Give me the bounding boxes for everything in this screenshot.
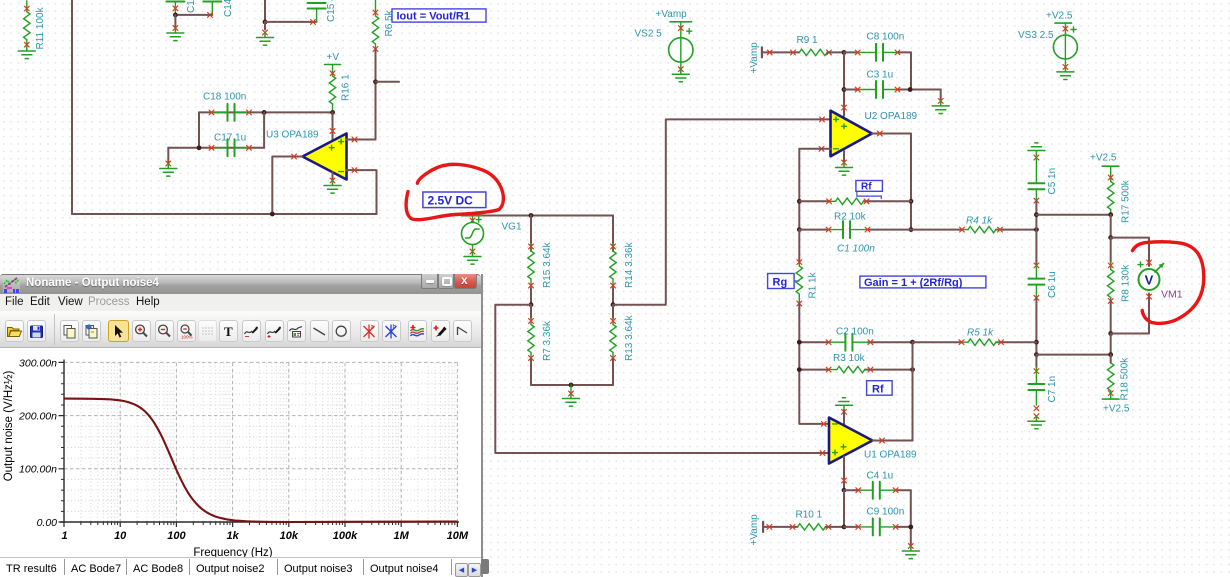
- power +V2.5 rail R17: [1090, 153, 1119, 167]
- junction right branch mid: [611, 302, 616, 307]
- resistor R8: [1108, 238, 1132, 334]
- junction C2 left/right: [797, 340, 802, 345]
- junction left branch mid: [529, 302, 534, 307]
- capacitor C1: [799, 221, 911, 254]
- svg-text:R5 1k: R5 1k: [967, 328, 994, 339]
- svg-text:C17 1u: C17 1u: [214, 133, 246, 144]
- resistor R2: [799, 198, 911, 222]
- wire U2 output: [872, 131, 911, 230]
- ground below C11: [167, 15, 184, 41]
- wire R8 to R18: [1110, 334, 1112, 355]
- resistor R11: [18, 1, 46, 59]
- wire C17 right up: [263, 112, 265, 147]
- svg-text:1M: 1M: [394, 530, 410, 542]
- ground flipped above U1: [836, 398, 853, 425]
- junction R5 right: [1034, 340, 1039, 345]
- junction output-rail: [270, 212, 275, 217]
- svg-text:C6 1u: C6 1u: [1047, 271, 1058, 298]
- capacitor C3: [844, 70, 941, 99]
- text box Rf upper: [856, 181, 883, 199]
- svg-text:10M: 10M: [447, 530, 469, 542]
- resistor R7: [528, 305, 553, 385]
- svg-text:100: 100: [167, 530, 186, 542]
- ground flipped above C5: [1028, 143, 1045, 156]
- junction C9 right: [908, 525, 913, 530]
- op-amp U1 OPA189: [820, 418, 917, 464]
- svg-text:R7 3.36k: R7 3.36k: [542, 320, 553, 361]
- ground C3: [932, 90, 949, 114]
- wire right tap to U2 +in: [613, 119, 831, 304]
- junction C11 node: [173, 13, 178, 18]
- capacitor C15: [308, 0, 337, 24]
- svg-text:VS2 5: VS2 5: [635, 29, 663, 40]
- svg-text:VG1: VG1: [502, 222, 522, 233]
- wire C5 node column: [1035, 201, 1037, 266]
- x ticks major: [64, 522, 457, 527]
- junction R18 top: [1108, 352, 1113, 357]
- junction C3 left: [842, 87, 847, 92]
- y ticks: [59, 362, 65, 522]
- svg-text:R8 130k: R8 130k: [1121, 264, 1132, 302]
- wire stub right: [376, 81, 400, 83]
- svg-text:+V2.5: +V2.5: [1103, 404, 1130, 415]
- capacitor C5: [1028, 155, 1058, 203]
- svg-text:VS3 2.5: VS3 2.5: [1018, 30, 1054, 41]
- svg-text:2.5V DC: 2.5V DC: [428, 194, 474, 208]
- red scribble around 2.5V DC: [406, 164, 503, 219]
- svg-text:R17 500k: R17 500k: [1121, 179, 1132, 223]
- junction stub node: [373, 79, 378, 84]
- svg-text:R9 1: R9 1: [797, 35, 819, 46]
- svg-text:200.00n: 200.00n: [18, 411, 57, 423]
- resistor R3: [799, 353, 912, 373]
- x axis labels: [61, 530, 468, 542]
- red scribble around VM1: [1133, 242, 1204, 324]
- wire bottom rail U3: [72, 213, 377, 215]
- resistor R17: [1108, 166, 1132, 223]
- resistor R16: [329, 65, 351, 113]
- op-amp U2 OPA189: [819, 105, 917, 156]
- ground C4/C9: [902, 544, 919, 559]
- junction bottom rail: [569, 383, 574, 388]
- wire left tap to U1 +in: [495, 305, 829, 453]
- junction R4 right: [1034, 227, 1039, 232]
- resistor R5: [913, 328, 1037, 346]
- resistor R1 (Rg): [796, 230, 829, 424]
- capacitor C14: [203, 0, 234, 17]
- svg-text:U1 OPA189: U1 OPA189: [864, 450, 917, 461]
- svg-text:Frequency (Hz): Frequency (Hz): [193, 547, 272, 557]
- wire U1 output: [873, 438, 913, 443]
- wire link C5 to R17: [1036, 214, 1110, 216]
- junction C1 row ends: [797, 227, 802, 232]
- junction C17 left: [197, 145, 202, 150]
- junction R10-C9: [842, 525, 847, 530]
- capacitor C9: [844, 507, 911, 536]
- noise curve: [64, 399, 457, 522]
- text box Gain formula: [860, 276, 986, 289]
- resistor R15: [528, 216, 553, 305]
- text box Rf lower: [867, 381, 893, 396]
- ground U2 -supply: [836, 151, 853, 175]
- ground divider: [563, 385, 580, 406]
- junction VM bottom: [1108, 331, 1113, 336]
- wire C18 left down: [198, 112, 200, 147]
- resistor R13: [610, 305, 635, 385]
- svg-text:0.00: 0.00: [37, 517, 58, 529]
- svg-text:R13 3.64k: R13 3.64k: [624, 314, 635, 361]
- resistor R10: [796, 510, 845, 531]
- resistor R6: [372, 0, 395, 51]
- svg-text:+Vamp: +Vamp: [749, 514, 760, 546]
- wire node down to C3/U2: [843, 52, 845, 116]
- svg-text:10: 10: [114, 530, 127, 542]
- svg-text:Rf: Rf: [861, 181, 872, 192]
- toolbar buttons: [54, 314, 55, 345]
- svg-text:C9 100n: C9 100n: [867, 507, 905, 518]
- ground C17 branch: [160, 148, 177, 176]
- wire U3 output: [272, 154, 302, 214]
- svg-text:100.00n: 100.00n: [19, 464, 57, 476]
- svg-text:C1 100n: C1 100n: [837, 244, 875, 255]
- capacitor C11: [166, 0, 197, 15]
- svg-text:C4 1u: C4 1u: [867, 471, 894, 482]
- wire U3 +supply: [330, 112, 335, 141]
- svg-text:R4 1k: R4 1k: [966, 216, 993, 227]
- svg-text:T: T: [224, 324, 233, 339]
- svg-text:R3 10k: R3 10k: [833, 353, 866, 364]
- junction R16 bottom: [330, 110, 335, 115]
- svg-text:Gain = 1 + (2Rf/Rg): Gain = 1 + (2Rf/Rg): [864, 277, 963, 289]
- capacitor C7: [1028, 355, 1058, 429]
- svg-text:R18 500k: R18 500k: [1120, 357, 1131, 401]
- junction C7 link: [1034, 352, 1039, 357]
- text box Rg: [768, 274, 799, 289]
- capacitor C18: [199, 92, 333, 121]
- svg-text:C11 1u: C11 1u: [186, 0, 197, 13]
- wire long vertical left: [71, 0, 73, 214]
- svg-text:R10 1: R10 1: [796, 510, 823, 521]
- port +Vamp lower: [749, 514, 798, 546]
- wire R6 down to U3 +in: [375, 49, 377, 140]
- wire U3 -in feedback: [347, 168, 377, 214]
- svg-text:1k: 1k: [226, 530, 239, 542]
- port +Vamp input: [749, 42, 799, 74]
- svg-text:Output noise (V/Hz½): Output noise (V/Hz½): [3, 371, 15, 482]
- text box Iout = Vout/R1: [392, 9, 486, 23]
- svg-text:V: V: [1145, 273, 1154, 288]
- junction R3 left/right: [797, 367, 802, 372]
- minor grid vertical (log): [81, 363, 455, 522]
- capacitor C6: [1028, 263, 1058, 300]
- svg-text:100k: 100k: [333, 530, 358, 542]
- junction C3 right: [908, 87, 913, 92]
- junction R2 row ends: [797, 199, 802, 204]
- wire U2 -in down: [799, 149, 830, 230]
- wire U1 -supply down: [842, 457, 847, 491]
- svg-text:C7 1n: C7 1n: [1047, 376, 1058, 403]
- svg-text:Rg: Rg: [773, 277, 788, 289]
- ground below C15 node: [257, 22, 274, 45]
- wire C4 right down: [910, 490, 912, 546]
- resistor R14: [610, 216, 635, 305]
- voltage source VS3: [1018, 10, 1077, 79]
- svg-text:U3 OPA189: U3 OPA189: [266, 130, 319, 141]
- ground U3 -supply: [324, 172, 341, 193]
- svg-text:+Vamp: +Vamp: [749, 42, 760, 74]
- wire C6 to R5 node: [1035, 298, 1037, 355]
- major grid horizontal: [64, 362, 457, 468]
- capacitor C4: [844, 471, 911, 499]
- svg-text:C8 100n: C8 100n: [867, 32, 905, 43]
- junction VM top: [1108, 235, 1113, 240]
- op-amp U3 OPA189: [266, 130, 347, 180]
- capacitor C2: [799, 327, 912, 351]
- wire divider bottom rail: [531, 384, 613, 386]
- junction R17 bottom: [1108, 212, 1113, 217]
- resistor R18: [1103, 355, 1131, 415]
- junction C5 link: [1034, 212, 1039, 217]
- svg-text:U2 OPA189: U2 OPA189: [865, 111, 918, 122]
- wire C11 to C14: [175, 14, 212, 16]
- junction C4 left: [842, 488, 847, 493]
- voltmeter VM1: [1138, 260, 1183, 300]
- svg-text:100%: 100%: [181, 335, 193, 340]
- junction rail-R15: [529, 213, 534, 218]
- wire to C15: [265, 21, 317, 23]
- svg-text:R14 3.36k: R14 3.36k: [624, 241, 635, 288]
- svg-text:Iout = Vout/R1: Iout = Vout/R1: [397, 11, 470, 23]
- wire C4-C9 left link: [843, 490, 845, 527]
- junction C18-C17 right: [262, 110, 267, 115]
- wire U1 output up: [912, 342, 914, 440]
- power +V rail: [325, 52, 341, 65]
- svg-text:+V: +V: [327, 52, 340, 63]
- junction C15 node: [263, 20, 268, 25]
- plot window chrome: [0, 274, 481, 294]
- svg-text:C2 100n: C2 100n: [836, 327, 874, 338]
- wire VM1 branch: [1111, 238, 1149, 334]
- resistor R9: [797, 35, 845, 56]
- svg-text:VM1: VM1: [1161, 289, 1183, 301]
- svg-text:Rf: Rf: [872, 383, 884, 395]
- generator VG1: [462, 216, 522, 265]
- wire R17 to VM node: [1110, 215, 1112, 238]
- capacitor C17: [168, 133, 264, 157]
- wire link C7 to R18: [1036, 354, 1110, 356]
- svg-text:R15 3.64k: R15 3.64k: [542, 241, 553, 288]
- svg-text:+Vamp: +Vamp: [656, 9, 688, 20]
- capacitor C8: [844, 32, 911, 61]
- svg-text:R1 1k: R1 1k: [808, 271, 819, 298]
- wire U3 +in: [347, 137, 376, 142]
- major grid vertical: [120, 363, 457, 522]
- svg-text:C14 1u: C14 1u: [223, 0, 234, 17]
- y axis labels: [18, 358, 57, 530]
- svg-text:1: 1: [61, 530, 67, 542]
- axes: [60, 360, 459, 523]
- svg-text:C5 1n: C5 1n: [1047, 168, 1058, 195]
- wire divider top rail: [462, 215, 614, 217]
- svg-text:C18 100n: C18 100n: [203, 92, 246, 103]
- svg-text:300.00n: 300.00n: [19, 358, 57, 370]
- svg-text:C15 47u: C15 47u: [326, 0, 337, 22]
- wire C8 right down: [910, 52, 912, 89]
- minor grid horizontal: [64, 373, 457, 511]
- text box 2.5V DC: [423, 192, 486, 208]
- svg-text:C3 1u: C3 1u: [867, 70, 894, 81]
- svg-text:+V2.5: +V2.5: [1090, 153, 1117, 164]
- svg-text:R16 1: R16 1: [341, 74, 352, 101]
- x ticks minor: [81, 522, 455, 525]
- voltage source VS2: [635, 9, 694, 82]
- junction R9-C8: [842, 50, 847, 55]
- svg-text:10k: 10k: [280, 530, 299, 542]
- svg-text:R11 100k: R11 100k: [35, 6, 46, 49]
- resistor R4: [911, 216, 1036, 233]
- svg-text:+V2.5: +V2.5: [1046, 10, 1073, 21]
- wire second top block vertical: [264, 0, 266, 22]
